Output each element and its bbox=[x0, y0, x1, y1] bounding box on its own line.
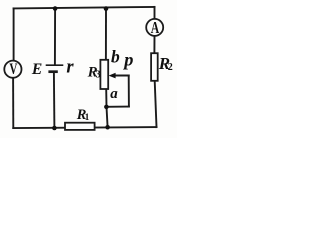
ammeter A1 circle bbox=[146, 19, 163, 36]
wire pot bottom terminal bbox=[105, 89, 107, 107]
wire ammeter to R2 bbox=[153, 36, 155, 54]
svg-text:V: V bbox=[9, 61, 17, 78]
svg-text:r: r bbox=[66, 57, 74, 77]
svg-text:2: 2 bbox=[168, 62, 173, 73]
potentiometer R3 box bbox=[100, 60, 108, 89]
wire top bbox=[14, 7, 155, 8]
wire battery bottom bbox=[53, 73, 56, 128]
wire wiper horizontal bbox=[114, 75, 129, 77]
node wiper join bbox=[104, 105, 109, 110]
wire left upper bbox=[13, 8, 15, 60]
wire battery top bbox=[54, 9, 56, 66]
node pot top bbox=[104, 6, 109, 11]
svg-text:b: b bbox=[111, 47, 120, 67]
wire wiper vertical bbox=[128, 76, 130, 107]
svg-text:a: a bbox=[110, 86, 118, 102]
node battery bottom bbox=[52, 126, 57, 131]
potentiometer R3 wiper arrow bbox=[109, 73, 116, 79]
wire left lower bbox=[12, 78, 14, 128]
svg-text:A: A bbox=[151, 18, 160, 37]
svg-text:p: p bbox=[122, 49, 133, 69]
wire right upper (top corner to ammeter) bbox=[154, 7, 156, 19]
svg-text:E: E bbox=[31, 61, 42, 78]
battery E short plate bbox=[48, 70, 57, 73]
wire wiper return bbox=[107, 106, 129, 108]
wire pot terminal to bottom bbox=[107, 107, 108, 127]
wire bottom bbox=[13, 127, 156, 128]
wire R2 to bottom bbox=[155, 81, 157, 127]
wire pot top bbox=[105, 9, 107, 60]
svg-text:3: 3 bbox=[96, 69, 101, 80]
resistor R2 box bbox=[151, 53, 158, 81]
voltmeter V1 circle bbox=[4, 61, 21, 78]
node pot bottom bbox=[105, 125, 110, 130]
resistor R1 box bbox=[65, 123, 95, 130]
node battery top bbox=[53, 6, 58, 11]
svg-text:1: 1 bbox=[85, 113, 90, 123]
battery E long plate bbox=[46, 64, 64, 66]
